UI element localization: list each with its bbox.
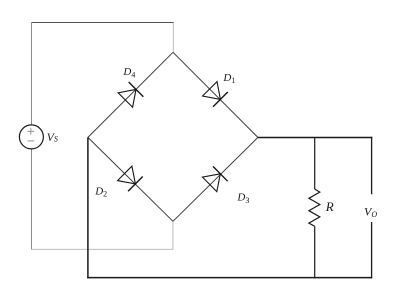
diode D3 symbol — [202, 166, 227, 191]
svg-text:VS: VS — [47, 132, 58, 144]
wire Vo top stub — [371, 137, 373, 195]
wire bridge edge left-top (through D4) — [88, 52, 173, 137]
wire top horizontal from source to bridge top — [31, 22, 174, 24]
voltage source VS circle — [19, 125, 43, 149]
wire output horizontal from bridge right vertex — [258, 137, 372, 139]
resistor R zigzag — [309, 189, 320, 226]
wire Vo bottom stub — [371, 222, 373, 278]
wire bridge edge top-right (through D1) — [173, 52, 258, 137]
wire left vertical from bridge left vertex down — [87, 137, 89, 278]
diode D2 symbol — [117, 166, 142, 191]
wire left vertical above source — [31, 22, 33, 125]
wire left vertical below source — [31, 149, 33, 250]
wire resistor top stub — [314, 138, 316, 190]
wire light vertical into bridge bottom vertex — [172, 221, 174, 249]
voltage source minus sign — [28, 140, 35, 142]
svg-text:D2: D2 — [94, 185, 107, 198]
svg-text:VO: VO — [364, 204, 377, 219]
svg-text:D4: D4 — [122, 66, 135, 79]
diode D1 symbol — [202, 81, 227, 106]
wire bridge edge bottom-right (through D3) — [173, 137, 258, 221]
wire light vertical into bridge top vertex — [172, 23, 174, 53]
svg-text:D3: D3 — [236, 192, 249, 205]
wire bottom return — [87, 277, 372, 279]
wire bridge edge left-bottom (through D2) — [88, 137, 173, 221]
svg-text:R: R — [325, 199, 334, 214]
voltage source plus sign — [28, 128, 35, 135]
svg-text:D1: D1 — [222, 72, 235, 85]
diode D4 symbol — [118, 82, 143, 107]
wire resistor bottom stub — [314, 226, 316, 278]
wire light bottom horizontal from source to bridge bottom — [31, 248, 173, 250]
